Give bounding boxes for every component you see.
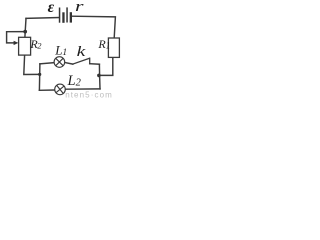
svg-text:ε: ε [48,0,55,16]
svg-text:L1: L1 [54,43,67,59]
svg-text:nten5·com: nten5·com [65,91,113,98]
svg-text:k: k [77,43,86,59]
svg-text:R2: R2 [29,37,42,51]
svg-text:r: r [75,0,84,15]
svg-text:L2: L2 [67,73,82,89]
